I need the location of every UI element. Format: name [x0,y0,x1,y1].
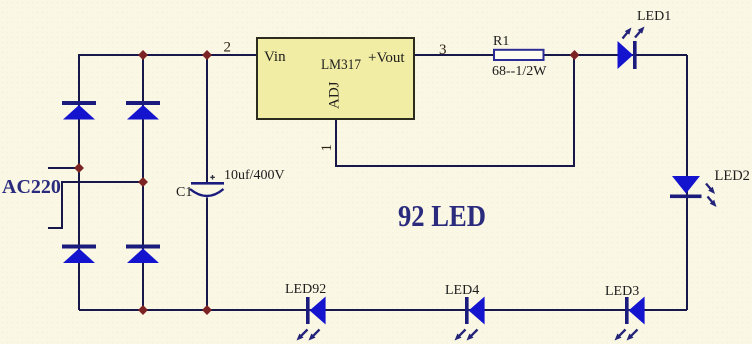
resistor R1 [493,34,544,60]
wire: AC top terminal stub [48,167,79,169]
svg-text:+Vout: +Vout [368,50,405,66]
bridge diode bottom-right [126,245,160,264]
wire: bridge middle rail [142,55,144,310]
regulator U1 LM317 [257,38,414,119]
LED3 [605,284,645,341]
svg-text:R1: R1 [493,34,509,49]
wire: bottom LED string wire [79,309,687,311]
svg-text:AC220: AC220 [2,176,61,198]
junction at C1 rail and bottom wire [202,305,212,315]
wire: left rail and top wire to LM317 Vin [79,55,257,310]
bridge diode top-left [62,101,96,120]
svg-text:C1: C1 [176,185,192,200]
wire: C1 rail lower segment [206,198,208,311]
wire: right rail down to LED string [686,55,688,310]
junction at C1 rail and top wire [202,50,212,60]
svg-text:LED4: LED4 [445,283,479,298]
wire: AC bottom terminal to bridge right node [48,182,143,228]
junction at AC bottom terminal [138,177,148,187]
svg-text:92 LED: 92 LED [398,198,486,233]
junction at output node and feedback [570,50,580,60]
svg-text:10uf/400V: 10uf/400V [224,168,285,183]
bridge diode top-right [126,101,160,120]
bridge diode bottom-left [62,245,96,264]
junction at bridge mid rail and bottom wire [138,305,148,315]
svg-text:3: 3 [439,42,447,58]
svg-text:LM317: LM317 [321,57,361,73]
LED2 [670,168,750,207]
wire: C1 rail upper segment [206,55,208,182]
junction at bridge mid rail and top wire [138,50,148,60]
svg-text:2: 2 [224,40,232,56]
LED1 [618,9,672,69]
svg-text:Vin: Vin [264,49,286,65]
svg-text:LED3: LED3 [605,284,639,299]
svg-text:LED92: LED92 [285,282,326,297]
svg-text:ADJ: ADJ [327,81,343,109]
LED92 [285,282,326,341]
LED4 [445,283,485,341]
svg-text:1: 1 [319,144,335,152]
wire: Vout through R1 and LED1 to right rail [414,54,687,56]
svg-text:LED1: LED1 [637,9,671,24]
svg-text:68--1/2W: 68--1/2W [492,64,547,79]
capacitor C1 [176,175,224,200]
wire: ADJ feedback loop to output node [336,55,574,166]
svg-text:LED2: LED2 [715,168,750,184]
junction at AC top terminal [74,163,84,173]
